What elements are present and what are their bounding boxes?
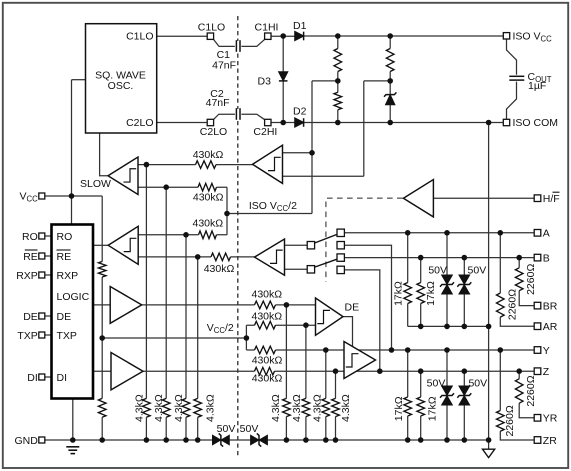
wire: driver1 output row to DE schmitt [141, 304, 315, 306]
node pullcol2 top [303, 322, 309, 328]
wire: pullcol2 [305, 325, 307, 440]
node Y/switch [389, 347, 395, 353]
svg-text:RXP: RXP [16, 270, 38, 282]
svg-text:GND: GND [14, 435, 38, 447]
resistor 4.3k c2 [301, 398, 311, 416]
switch contact sq1 [337, 229, 344, 236]
diode D1 [295, 32, 304, 41]
svg-text:50V: 50V [427, 377, 446, 389]
svg-text:430kΩ: 430kΩ [252, 373, 283, 385]
wire: 17k column Y [407, 350, 409, 440]
wire: C2HI to D2 [271, 122, 295, 124]
wire: D3 branch vertical [282, 36, 284, 123]
wire: driver1 input [93, 304, 110, 306]
svg-text:TXP: TXP [17, 330, 37, 342]
node chain1 mid [335, 78, 341, 84]
wire: RO pin stub [45, 235, 52, 237]
terminal GND [39, 437, 45, 443]
svg-text:4.3kΩ: 4.3kΩ [312, 394, 324, 422]
svg-text:4.3kΩ: 4.3kΩ [133, 394, 145, 422]
svg-text:DE: DE [345, 301, 360, 313]
terminal C1HI [265, 33, 271, 39]
wire: U6 input top [285, 244, 308, 246]
svg-text:LOGIC: LOGIC [57, 291, 90, 303]
node gnd/IC [70, 437, 76, 443]
node com1/ISO COM [486, 324, 492, 330]
wire: GND rail left of clamp [45, 439, 213, 441]
wire: chain1 vertical (R-R divider) [337, 36, 339, 123]
terminal VCC [39, 193, 45, 199]
wire: 17k column A [407, 233, 409, 327]
overline F in H/F [553, 191, 560, 193]
node B/2260 [516, 255, 522, 261]
terminal C2LO [207, 119, 213, 125]
svg-text:YR: YR [543, 413, 558, 425]
node chain2 mid [387, 78, 393, 84]
node A/17k [405, 230, 411, 236]
svg-text:OSC.: OSC. [108, 80, 134, 92]
wire: RO receiver output [93, 244, 108, 246]
wire: ISO COM long vertical [488, 123, 490, 450]
wire: 430k row to DE schmitt lower input [246, 324, 315, 326]
terminal RXP [39, 272, 45, 278]
wire: RE pin stub [45, 255, 52, 257]
node com1/17k [418, 324, 424, 330]
node com1/50V-A [444, 324, 450, 330]
terminal C2HI [265, 119, 271, 125]
terminal YR [534, 415, 541, 422]
switch blade 1 [315, 234, 337, 243]
resistor 430k U2 [198, 182, 217, 192]
svg-text:4.3kΩ: 4.3kΩ [291, 394, 303, 422]
node bus4 top [195, 254, 201, 260]
wire: chain2 mid tap [364, 80, 390, 82]
terminal B [534, 254, 541, 261]
node Vcc/2 bracket [244, 335, 250, 341]
node B/17k [418, 255, 424, 261]
wire: pullcol1 [285, 305, 287, 440]
wire: slow buffer lower row [138, 186, 227, 188]
buffer driver D2 [111, 353, 143, 390]
node ISO COM tap [486, 120, 492, 126]
wire: schmitt U5 upper input row [283, 152, 313, 154]
svg-text:17kΩ: 17kΩ [427, 396, 439, 421]
square-wave oscillator box [86, 24, 157, 133]
svg-text:C2HI: C2HI [253, 126, 277, 138]
transceiver logic IC box [52, 225, 94, 399]
node Z/2260 [516, 368, 522, 374]
svg-text:ISO COM: ISO COM [513, 117, 559, 129]
buffer Y schmitt [344, 342, 376, 379]
svg-text:Z: Z [543, 366, 550, 378]
svg-text:4.3kΩ: 4.3kΩ [340, 394, 352, 422]
wire: 17k column B [420, 258, 422, 327]
svg-text:17kΩ: 17kΩ [425, 281, 437, 306]
ground symbol (logic gnd) [66, 446, 79, 448]
svg-text:430kΩ: 430kΩ [251, 311, 282, 323]
svg-text:DE: DE [57, 311, 72, 323]
zener pair 50V A [442, 275, 452, 284]
wire: RXP pin stub [45, 274, 52, 276]
resistor chain2 [385, 49, 395, 72]
svg-text:50V: 50V [468, 377, 487, 389]
resistor 430k L2 [255, 320, 276, 330]
wire: GND rail right of clamp [266, 439, 488, 441]
resistor 4.3k b1 [141, 398, 151, 417]
wire: driver2 input [93, 370, 111, 372]
wire: C2 coupling jog right [241, 114, 265, 120]
resistor 4.3k b2 [161, 398, 171, 417]
node ISO Vcc/2 tee [224, 211, 230, 217]
capacitor C2 [235, 109, 241, 120]
svg-text:RO: RO [57, 231, 73, 243]
wire: bus3 [185, 235, 187, 440]
wire: 17k column Z [420, 371, 422, 440]
buffer DE schmitt [316, 298, 344, 335]
wire: C2 coupling jog left [213, 114, 235, 120]
wire: top ISO Vcc rail D1 to ISO Vcc terminal [304, 35, 504, 37]
node chain2 top [387, 33, 393, 39]
resistor 2260 Z-YR [514, 379, 524, 403]
node U5 upper input [309, 150, 315, 156]
resistor 4.3k b4 [193, 398, 203, 417]
resistor chain1 upper [333, 49, 343, 72]
node gnd/ISO COM [486, 437, 492, 443]
wire: vertical joining 430k rows [226, 187, 228, 235]
switch common sq2 [307, 242, 314, 249]
svg-text:4.3kΩ: 4.3kΩ [270, 394, 282, 422]
svg-text:50V: 50V [217, 423, 236, 435]
diode D2 [295, 118, 304, 127]
buffer U5 schmitt (iso side top) [253, 145, 283, 183]
wire: OSC to SLOW buffer [100, 133, 108, 176]
resistor 2260 A-AR [495, 293, 505, 317]
wire: DE pin stub [45, 315, 52, 317]
wire: DE schmitt output drop [343, 317, 353, 347]
node chain1 top [335, 33, 341, 39]
terminal ISO COM [503, 119, 509, 125]
wire: bus2 [165, 187, 167, 440]
svg-text:D3: D3 [258, 76, 272, 88]
wire: slow buffer upper row (430k feedback) [138, 164, 253, 166]
capacitor COUT [509, 75, 524, 77]
wire: 50V clamp column A [446, 233, 448, 327]
svg-text:47nF: 47nF [206, 97, 230, 109]
switch contact sq6 [337, 266, 344, 273]
switch common sq5 [307, 266, 314, 273]
wire: GND rail between clamps [229, 439, 252, 441]
terminal DE [39, 313, 45, 319]
svg-text:SLOW: SLOW [80, 178, 111, 190]
resistor 2260 Y-ZR [495, 411, 505, 432]
resistor 17k Z [416, 397, 426, 416]
resistor 430k L3 [255, 345, 276, 355]
svg-text:TXP: TXP [57, 330, 77, 342]
node bus1 top [144, 162, 150, 168]
wire: Vcc terminal row [45, 195, 102, 197]
wire: H/F buffer input [433, 197, 534, 199]
wire: C1HI square to D1 node [271, 35, 295, 37]
terminal RE [39, 253, 45, 259]
resistor 4.3k b3 [181, 398, 191, 417]
node gnd/pullcol3 [323, 437, 329, 443]
svg-text:430kΩ: 430kΩ [252, 355, 283, 367]
wire: pullcol3 [325, 350, 327, 440]
wire: ISO Vcc/2 row [227, 213, 312, 215]
resistor 4.3k c3 [321, 398, 331, 416]
svg-text:430kΩ: 430kΩ [193, 191, 224, 203]
node A/50V [444, 230, 450, 236]
svg-text:2260Ω: 2260Ω [507, 289, 519, 320]
iso common ground triangle [483, 449, 495, 457]
svg-text:BR: BR [543, 300, 558, 312]
svg-text:50V: 50V [240, 423, 259, 435]
terminal TXP [39, 332, 45, 338]
svg-text:C1LO: C1LO [126, 31, 153, 43]
wire: DI pin stub [45, 376, 52, 378]
resistor chain1 lower [333, 92, 343, 110]
terminal Y [534, 347, 541, 354]
terminal AR [534, 323, 541, 330]
wire: Y row [246, 349, 534, 351]
wire: Z to YR resistor branch [519, 371, 534, 418]
node Vcc tee [69, 193, 75, 199]
switch blade 2 [315, 259, 337, 267]
svg-text:2260Ω: 2260Ω [525, 264, 537, 295]
node gnd/bus2 [163, 437, 169, 443]
wire: bus4 [197, 257, 199, 440]
resistor 2260 B-BR [514, 268, 524, 291]
svg-text:50V: 50V [428, 265, 447, 277]
terminal A [534, 230, 541, 237]
terminal DI [39, 374, 45, 380]
svg-text:ZR: ZR [543, 435, 557, 447]
svg-text:B: B [543, 252, 550, 264]
svg-text:C2LO: C2LO [200, 126, 227, 138]
node Z/50V [462, 368, 468, 374]
node bus2 top [163, 184, 169, 190]
node Z/17k [418, 368, 424, 374]
wire: pullcol4 [335, 371, 337, 440]
svg-text:2260Ω: 2260Ω [525, 375, 537, 406]
wire: A to AR resistor branch [500, 233, 534, 326]
wire: Y to ZR resistor branch [500, 350, 534, 440]
wire: chain1 mid to ISO Vcc/2 vertical [312, 80, 338, 82]
terminal ZR [534, 437, 541, 444]
wire: B row [344, 257, 534, 259]
wire: OSC C2LO pin to C2LO square [157, 122, 208, 124]
svg-text:2260Ω: 2260Ω [504, 405, 516, 436]
svg-text:430kΩ: 430kΩ [193, 149, 224, 161]
buffer RO schmitt [108, 226, 138, 264]
resistor 17k Y [403, 397, 413, 416]
overline RE int [57, 249, 71, 251]
svg-text:RE: RE [57, 251, 72, 263]
svg-text:ISO VCC/2: ISO VCC/2 [249, 200, 297, 213]
resistor 4.3k c1 [281, 398, 291, 416]
wire: ISO COM rail D2 to ISO COM terminal [304, 122, 504, 124]
node gnd/bus3 [183, 437, 189, 443]
svg-text:50V: 50V [468, 265, 487, 277]
overline RE ext [25, 249, 38, 251]
wire: 50V clamp column Z [463, 371, 465, 440]
svg-text:4.3kΩ: 4.3kΩ [205, 394, 217, 422]
wire: bus1 [145, 165, 147, 440]
switch contact sq3 [337, 242, 344, 249]
node gnd/17kY [405, 437, 411, 443]
terminal ISO VCC [503, 33, 509, 39]
terminal C1LO [207, 33, 213, 39]
wire: U6 input bottom [285, 268, 308, 270]
svg-text:C2LO: C2LO [126, 117, 153, 129]
buffer U6 schmitt (iso side receiver) [255, 239, 285, 275]
wire: C1 coupling jog left [213, 39, 235, 46]
wire: schmitt U5 lower input riser [363, 81, 365, 176]
svg-text:DI: DI [57, 372, 68, 384]
wire: B to BR resistor branch [519, 258, 534, 306]
svg-text:4.3kΩ: 4.3kΩ [173, 394, 185, 422]
svg-text:RE: RE [23, 251, 38, 263]
isolation barrier dashed line [237, 16, 239, 458]
node A/2260 [498, 230, 504, 236]
svg-text:430kΩ: 430kΩ [192, 217, 223, 229]
node gnd/pullcol4 [333, 437, 339, 443]
terminal Z [534, 368, 541, 375]
svg-text:1µF: 1µF [528, 80, 546, 92]
svg-text:17kΩ: 17kΩ [393, 281, 405, 306]
node com1/50V-B [462, 324, 468, 330]
wire: Z row driver2 output [143, 370, 534, 372]
node gnd/pullcol2 [303, 437, 309, 443]
capacitor C1 [235, 41, 241, 52]
node gnd/bus1 [144, 437, 150, 443]
wire: schmitt U5 lower input row [283, 175, 364, 177]
zener pair 50V Y [442, 386, 452, 395]
node B/50V [462, 255, 468, 261]
resistor 4.3k c4 [331, 398, 341, 416]
svg-text:RXP: RXP [57, 270, 79, 282]
node Y/2260 [498, 347, 504, 353]
H/F switch control dashed line [326, 198, 403, 282]
node pullcol1 top [284, 302, 290, 308]
wire: ISO Vcc/2 vertical drop [311, 81, 313, 214]
terminal RO [39, 233, 45, 239]
node chain2 bottom [387, 120, 393, 126]
buffer H/F control [403, 180, 433, 217]
wire: C1 coupling jog right [241, 39, 265, 46]
wire: Vcc/2 bracket vertical [245, 325, 247, 350]
node Y/17k [405, 347, 411, 353]
resistor 430k U4 [211, 252, 231, 262]
svg-text:DI: DI [27, 372, 38, 384]
zener pair 50V B [459, 275, 469, 284]
wire: IC gnd stem [72, 399, 74, 441]
node gnd/pullcol1 [284, 437, 290, 443]
wire: Vcc/2 row [102, 337, 246, 339]
svg-text:C1HI: C1HI [255, 22, 279, 34]
buffer driver D1 [110, 287, 142, 324]
wire: RE-schmitt lower row to U6 [138, 256, 255, 258]
node gnd/50V-Y [444, 437, 450, 443]
buffer SLOW schmitt [108, 157, 138, 195]
wire: Vcc feed to OSC [72, 79, 86, 81]
svg-text:430kΩ: 430kΩ [251, 289, 282, 301]
node gnd/50V-Z [462, 437, 468, 443]
zener pair 50V gnd left [213, 436, 221, 445]
svg-text:4.3kΩ: 4.3kΩ [153, 394, 165, 422]
resistor Vcc/2 upper [97, 262, 107, 278]
zener pair 50V Z [459, 386, 469, 395]
node bus3 top [183, 232, 189, 238]
svg-text:C1LO: C1LO [198, 22, 225, 34]
node Vcc/2 tap [99, 335, 105, 341]
terminal H/F [534, 195, 541, 202]
wire: 50V clamp column Y [446, 350, 448, 440]
wire: switch throw to Y [344, 245, 391, 350]
diode D3 [279, 72, 288, 81]
svg-text:47nF: 47nF [212, 59, 236, 71]
resistor 430k U1 [196, 160, 217, 170]
node gnd/17kZ [418, 437, 424, 443]
wire: 50V clamp column B [463, 258, 465, 327]
switch contact sq4 [337, 254, 344, 261]
svg-text:430kΩ: 430kΩ [204, 263, 235, 275]
svg-text:17kΩ: 17kΩ [393, 396, 405, 421]
resistor 17k B [416, 283, 426, 304]
resistor Vcc/2 lower [97, 398, 107, 417]
resistor 430k L1 [255, 300, 276, 310]
node Y/50V [444, 347, 450, 353]
node pullcol3 top [323, 347, 329, 353]
resistor 430k L4 [255, 366, 275, 376]
node pullcol4 top [333, 368, 339, 374]
wire: switch throw to Z [344, 270, 379, 371]
node C1HI/D1/D3 [280, 33, 286, 39]
node chain1 bottom [335, 120, 341, 126]
capacitor COUT wiring [507, 39, 517, 75]
svg-text:D2: D2 [293, 106, 307, 118]
svg-text:AR: AR [543, 321, 558, 333]
svg-text:RO: RO [22, 231, 38, 243]
svg-text:Y: Y [543, 345, 550, 357]
node gnd/divider [99, 437, 105, 443]
node Z/switch [377, 368, 383, 374]
terminal BR [534, 302, 541, 309]
zener chain2 [386, 95, 395, 104]
node gnd/bus4 [195, 437, 201, 443]
svg-text:H/F: H/F [543, 193, 560, 205]
wire: RE-schmitt upper row [138, 234, 227, 236]
svg-text:D1: D1 [293, 20, 307, 32]
svg-text:A: A [543, 228, 550, 240]
wire: A/B network common rail [408, 325, 489, 327]
wire: chain2 vertical (R-zener) [389, 36, 391, 123]
wire: TXP pin stub [45, 334, 52, 336]
wire: Vcc vertical to IC [71, 80, 73, 225]
wire: Vcc/2 divider vertical [101, 196, 103, 440]
node C2HI/D2/D3 [280, 120, 286, 126]
resistor 17k A [403, 283, 413, 304]
svg-text:DE: DE [23, 311, 38, 323]
wire: A row [344, 232, 534, 234]
resistor 430k U3 [199, 230, 217, 240]
wire: OSC C1LO pin to C1LO square [157, 35, 208, 37]
zener pair 50V gnd right [251, 436, 259, 445]
